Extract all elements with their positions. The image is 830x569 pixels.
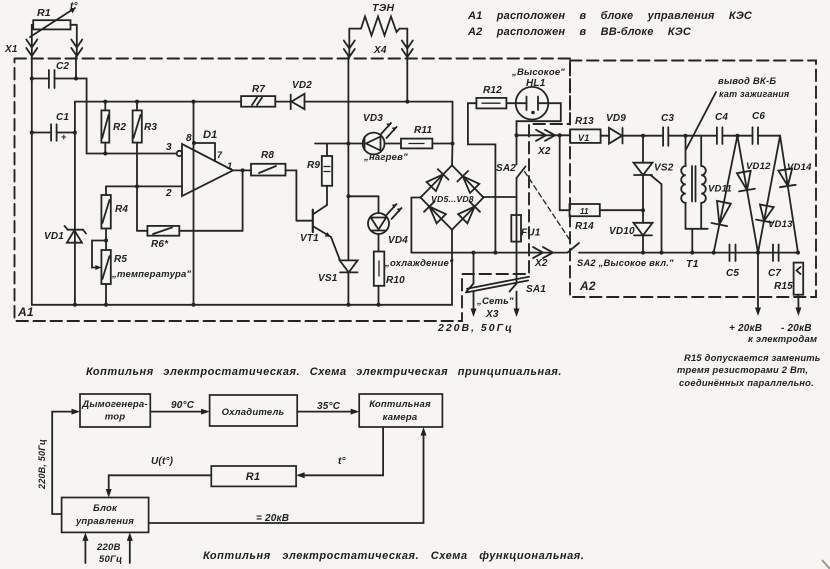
resistor R14: [560, 135, 643, 216]
svg-text:VD9: VD9: [606, 113, 626, 124]
node rail R10: [377, 303, 381, 307]
wire feedback vertical: [242, 170, 244, 230]
svg-text:R13: R13: [575, 116, 594, 127]
zener diode VD1: [65, 226, 87, 243]
FD wire t from chamber to R1: [296, 427, 383, 478]
output arrow plus 20kV: [755, 253, 761, 316]
connector X4 right arrow: [402, 41, 413, 58]
svg-text:VD1: VD1: [44, 231, 64, 242]
node R15 top: [796, 251, 800, 255]
bridge diode bottom-right: [458, 201, 480, 223]
svg-text:C2: C2: [56, 61, 69, 72]
resistor R4: [101, 186, 110, 250]
node R2 top: [103, 100, 107, 104]
diode VD2: [291, 94, 453, 110]
wire C2 to op-amp pin3: [76, 79, 176, 154]
callout line to ignition coil note: [686, 92, 716, 150]
svg-text:U(t°): U(t°): [151, 456, 174, 467]
thermistor R1: [30, 8, 77, 37]
diode VD9: [609, 128, 663, 144]
capacitor C3: [663, 127, 717, 146]
connector X2 upper arrows: [536, 130, 555, 141]
svg-text:VD2: VD2: [292, 80, 312, 91]
svg-text:220В, 50Гц: 220В, 50Гц: [437, 322, 514, 334]
svg-text:D1: D1: [203, 129, 217, 141]
wire bridge right vertex: [484, 196, 517, 198]
svg-text:R11: R11: [414, 125, 432, 136]
node C2 left junction: [30, 77, 34, 81]
svg-text:SA2: SA2: [496, 163, 516, 174]
svg-text:A2: A2: [579, 279, 596, 293]
thyristor VS2: [634, 136, 662, 253]
svg-text:2: 2: [165, 188, 172, 199]
resistor R2: [101, 102, 109, 154]
svg-text:тор: тор: [105, 412, 126, 423]
node VD10 neutral: [641, 251, 645, 255]
wire top bus horizontal: [75, 101, 241, 103]
svg-text:Блок: Блок: [93, 503, 118, 514]
heater TEN: [349, 17, 407, 41]
transistor VT1: [296, 170, 331, 237]
wire X4 left down: [347, 57, 349, 261]
capacitor C6: [753, 127, 781, 144]
node neutral R12 return: [493, 251, 497, 255]
LED VD3: [315, 123, 397, 154]
switch SA2 mechanical link dashed: [525, 172, 571, 242]
wire op-amp output: [233, 169, 251, 171]
svg-text:VD5...VD8: VD5...VD8: [431, 194, 474, 204]
wire heater line corner down to bridge: [451, 102, 454, 166]
node pin8: [192, 141, 196, 145]
thyristor VS1: [331, 237, 358, 305]
svg-text:R3: R3: [144, 122, 157, 133]
connector X1 right arrow: [71, 25, 82, 57]
node rail supply: [192, 303, 196, 307]
svg-text:3: 3: [166, 142, 172, 153]
bridge diode top-right: [457, 171, 479, 193]
scan corner mark: [822, 560, 830, 569]
FD box control unit: [62, 498, 149, 533]
capacitor C1: [32, 124, 75, 140]
wire bottom rail: [32, 230, 452, 305]
FD arrow cooler to chamber: [297, 409, 359, 415]
switch SA1: [466, 277, 529, 293]
svg-text:+ 20кВ: + 20кВ: [729, 323, 762, 334]
svg-text:8: 8: [186, 133, 192, 144]
svg-text:„Высокое": „Высокое": [511, 67, 565, 78]
svg-text:220В, 50Гц: 220В, 50Гц: [37, 439, 47, 490]
FD box smoke generator: [80, 394, 150, 427]
svg-text:VD12: VD12: [746, 161, 771, 172]
wire X2 line upper: [517, 134, 571, 136]
svg-text:50Гц: 50Гц: [99, 554, 122, 565]
svg-text:кат зажигания: кат зажигания: [719, 89, 790, 99]
FD box R1: [211, 466, 296, 486]
svg-text:11: 11: [580, 207, 589, 216]
svg-text:A1: A1: [17, 305, 34, 319]
svg-text:вывод ВК-Б: вывод ВК-Б: [718, 76, 776, 87]
FD wire 20kV control to chamber: [149, 427, 427, 523]
resistor R3: [133, 102, 142, 187]
node output: [241, 168, 245, 172]
svg-text:R7: R7: [252, 84, 265, 95]
svg-text:А2 расположен в ВВ-блоке КЭ: А2 расположен в ВВ-блоке КЭС: [467, 26, 692, 38]
neon lamp HL1: [516, 87, 549, 120]
svg-text:„охлаждение": „охлаждение": [384, 258, 454, 269]
resistor R6: [137, 226, 179, 236]
node C1 right junction: [73, 131, 77, 135]
svg-text:Дымогенера-: Дымогенера-: [81, 399, 147, 410]
diode VD14 diagonal: [778, 136, 798, 253]
node X2 line left: [515, 133, 519, 137]
svg-text:R6*: R6*: [151, 239, 169, 250]
resistor R9: [322, 144, 332, 206]
wire R6 to pin2: [136, 186, 138, 230]
svg-text:7: 7: [217, 150, 223, 160]
wire HL1 to X2 line: [517, 103, 561, 135]
svg-text:управления: управления: [75, 516, 134, 527]
svg-text:= 20кВ: = 20кВ: [256, 513, 289, 524]
svg-text:R8: R8: [261, 150, 274, 161]
node T1 bottom neutral: [690, 251, 694, 255]
svg-text:„температура": „температура": [111, 269, 192, 280]
svg-text:Коптильня электростатическая.: Коптильня электростатическая. Схема функ…: [203, 550, 584, 562]
resistor R15: [794, 263, 804, 295]
wire supply bus vertical left: [74, 102, 76, 305]
diode VD13 diagonal: [756, 136, 780, 253]
svg-text:FU1: FU1: [521, 228, 541, 239]
switch SA2 pole1: [517, 135, 526, 215]
switch SA2 pole2: [568, 243, 799, 253]
bridge diode bottom-left: [424, 201, 446, 223]
svg-text:тремя резисторами 2 Вт,: тремя резисторами 2 Вт,: [677, 364, 808, 375]
svg-text:C7: C7: [768, 268, 781, 279]
svg-text:R15: R15: [774, 281, 793, 292]
wire SA1 left pole: [473, 253, 475, 284]
node R14 right: [641, 208, 645, 212]
block A2 dashed outline: [570, 61, 816, 298]
svg-text:VD4: VD4: [388, 235, 408, 246]
svg-text:VS2: VS2: [654, 163, 674, 174]
node VD4 line tap: [346, 194, 350, 198]
svg-text:C6: C6: [752, 111, 765, 122]
wire X4 right down: [406, 57, 408, 102]
LED VD4: [348, 196, 401, 234]
svg-text:C1: C1: [56, 112, 69, 123]
node R11 right: [451, 142, 455, 146]
svg-text:R1: R1: [246, 471, 260, 483]
resistor R10: [374, 234, 385, 305]
svg-text:220В: 220В: [96, 542, 121, 553]
wire left input column: [31, 57, 33, 305]
node R3 top: [135, 100, 139, 104]
svg-text:VD13: VD13: [768, 219, 793, 230]
wire X1 right arrow to C2: [75, 57, 77, 79]
svg-text:X2: X2: [534, 258, 548, 269]
svg-text:X1: X1: [4, 44, 18, 55]
svg-text:C4: C4: [715, 112, 728, 123]
capacitor C2: [32, 70, 76, 88]
svg-text:Охладитель: Охладитель: [222, 407, 285, 418]
svg-text:1: 1: [227, 161, 232, 172]
node C2 right junction: [74, 77, 78, 81]
svg-text:А1 расположен в блоке управ: А1 расположен в блоке управления КЭС: [467, 10, 753, 22]
wire feedback horizontal: [179, 230, 242, 232]
FD box cooler: [210, 395, 298, 426]
FD box smoking chamber: [359, 394, 442, 427]
node X4 right post: [405, 100, 409, 104]
block A1 dashed outline: [15, 59, 571, 322]
svg-text:- 20кВ: - 20кВ: [781, 323, 812, 334]
wire bridge left vertex to neutral: [411, 198, 420, 253]
svg-text:T1: T1: [686, 258, 699, 270]
svg-text:R4: R4: [115, 204, 128, 215]
FD mains arrows into control unit: [82, 532, 132, 563]
node T1 primary top: [684, 134, 688, 138]
svg-text:VS1: VS1: [318, 273, 338, 284]
svg-text:t°: t°: [338, 456, 347, 467]
svg-text:90°C: 90°C: [171, 400, 195, 411]
connector X3 plug arrows: [471, 292, 520, 318]
connector X4 left arrow: [344, 41, 355, 58]
svg-text:R10: R10: [386, 275, 405, 286]
node R4 R5 junction: [104, 239, 108, 243]
svg-text:к электродам: к электродам: [748, 334, 817, 345]
node R2 bottom: [103, 152, 107, 156]
wire R12 return zigzag: [468, 103, 496, 252]
node neutral SA1 left: [472, 251, 476, 255]
node VS2 gate neutral: [660, 251, 664, 255]
diode VD11 diagonal: [712, 136, 738, 253]
potentiometer R5: [92, 241, 111, 305]
svg-text:SA2 „Высокое вкл.": SA2 „Высокое вкл.": [577, 257, 674, 268]
capacitor C4: [717, 127, 753, 144]
node VD3 line tap: [346, 142, 350, 146]
node bus supply: [192, 100, 196, 104]
svg-text:Коптильня электростатическая.: Коптильня электростатическая. Схема элек…: [86, 366, 562, 378]
connector X1 left arrow: [26, 25, 37, 57]
node multiplier top: [735, 134, 739, 138]
FD wire U(t) R1 to control: [106, 475, 212, 497]
svg-text:R15 допускается заменить: R15 допускается заменить: [684, 352, 821, 363]
svg-text:VD14: VD14: [787, 162, 812, 173]
resistor R12: [468, 98, 516, 109]
svg-text:35°C: 35°C: [317, 401, 341, 412]
svg-text:C5: C5: [726, 268, 739, 279]
fuse FU1: [511, 215, 521, 284]
bridge diode top-left: [427, 169, 449, 191]
svg-text:C3: C3: [661, 113, 674, 124]
FD arrow generator to cooler: [150, 409, 209, 415]
svg-text:камера: камера: [383, 412, 418, 423]
svg-text:VD10: VD10: [609, 226, 635, 237]
svg-text:VD3: VD3: [363, 113, 383, 124]
resistor R13: [570, 129, 609, 143]
resistor R7: [241, 96, 291, 107]
svg-text:R9: R9: [307, 160, 320, 171]
svg-text:ТЭН: ТЭН: [372, 2, 394, 14]
node output plus: [756, 250, 760, 254]
connector X2 lower arrows: [533, 247, 553, 258]
wire supply vertical through op-amp: [193, 102, 195, 305]
svg-text:VD11: VD11: [708, 184, 732, 195]
wire neutral line: [411, 252, 567, 254]
svg-text:X2: X2: [537, 146, 551, 157]
svg-text:X4: X4: [373, 45, 387, 56]
svg-text:X3: X3: [485, 309, 499, 320]
node R14 branch: [558, 133, 562, 137]
svg-text:V1: V1: [578, 133, 589, 143]
svg-text:HL1: HL1: [526, 78, 546, 89]
svg-text:„нагрев": „нагрев": [363, 152, 408, 163]
node rail VD1: [73, 303, 77, 307]
svg-text:R12: R12: [483, 85, 502, 96]
transformer T1: [681, 136, 708, 253]
svg-text:VT1: VT1: [300, 233, 319, 244]
bridge VD5-VD8 diamond: [421, 165, 484, 229]
resistor R8: [251, 164, 296, 176]
node VS2 top: [641, 134, 645, 138]
svg-text:R2: R2: [113, 122, 126, 133]
svg-text:R5: R5: [114, 254, 127, 265]
svg-text:соединённых параллельно.: соединённых параллельно.: [679, 377, 814, 388]
svg-text:SA1: SA1: [526, 284, 546, 295]
svg-text:Коптильная: Коптильная: [369, 399, 431, 410]
capacitor C5: [730, 245, 736, 262]
node R3 bottom pin2: [135, 184, 139, 188]
node VD11 bottom: [712, 251, 716, 255]
node rail VS1: [346, 303, 350, 307]
svg-text:t°: t°: [70, 1, 79, 12]
diode VD12 diagonal: [737, 136, 758, 253]
output arrow minus 20kV: [795, 295, 801, 316]
svg-text:R1: R1: [37, 7, 51, 19]
op-amp D1: [106, 143, 233, 196]
svg-text:+: +: [61, 132, 67, 142]
node C1 left junction: [30, 131, 34, 135]
svg-text:„Сеть": „Сеть": [476, 296, 514, 307]
capacitor C7: [773, 245, 779, 262]
resistor R11: [385, 139, 453, 149]
svg-text:R14: R14: [575, 221, 594, 232]
diode VD10: [634, 223, 653, 253]
FD wire mains loop to generator: [52, 409, 80, 514]
node rail R5: [104, 303, 108, 307]
